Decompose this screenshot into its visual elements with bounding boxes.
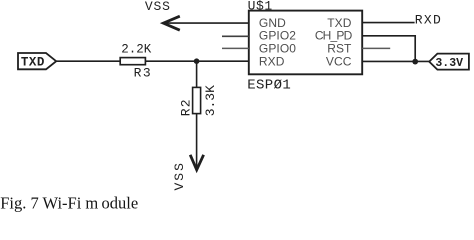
svg-text:3.3V: 3.3V bbox=[435, 57, 463, 70]
svg-text:2.2K: 2.2K bbox=[121, 43, 152, 57]
flag TXD (input port) bbox=[18, 53, 56, 69]
flag 3.3V (supply) bbox=[429, 54, 469, 70]
svg-text:VCC: VCC bbox=[326, 55, 352, 69]
pin stub GPIO2 bbox=[222, 35, 249, 37]
resistor R3 bbox=[120, 58, 145, 65]
svg-text:GPIO2: GPIO2 bbox=[259, 29, 296, 43]
wire GND pin to VSS arrow bbox=[166, 22, 249, 24]
ground VSS arrow (down) bbox=[190, 155, 203, 170]
node A junction dot bbox=[194, 58, 200, 64]
svg-text:CH_PD: CH_PD bbox=[315, 29, 353, 43]
pin stub GPIO0 bbox=[222, 47, 249, 49]
svg-text:U$1: U$1 bbox=[248, 0, 273, 14]
svg-text:VSS: VSS bbox=[145, 0, 171, 14]
resistor R2 bbox=[193, 87, 201, 113]
node B junction dot bbox=[412, 59, 418, 65]
wire R3 to node A and IC RXD pin bbox=[146, 60, 249, 62]
svg-text:RXD: RXD bbox=[415, 12, 442, 27]
svg-text:Fig. 7 Wi-Fi m odule: Fig. 7 Wi-Fi m odule bbox=[0, 193, 138, 212]
wire node A down to R2 bbox=[196, 61, 198, 87]
svg-text:TXD: TXD bbox=[21, 55, 45, 69]
wire R2 to VSS arrow bbox=[196, 114, 198, 168]
svg-text:ESPØ1: ESPØ1 bbox=[247, 77, 291, 93]
wire VCC pin to 3.3V flag bbox=[362, 60, 429, 62]
svg-text:VSS: VSS bbox=[172, 161, 187, 190]
svg-text:3.3K: 3.3K bbox=[203, 85, 218, 116]
wire CH_PD pin to node B bbox=[362, 36, 415, 62]
op IC U$1 box bbox=[249, 11, 362, 75]
svg-text:R2: R2 bbox=[178, 98, 193, 116]
svg-text:RXD: RXD bbox=[259, 55, 285, 69]
wire TXD flag to R3 bbox=[56, 60, 119, 62]
svg-text:R3: R3 bbox=[134, 66, 153, 81]
supply VSS arrow (left) bbox=[163, 16, 179, 30]
wire IC TXD pin to RXD net bbox=[362, 22, 414, 24]
pin stub RST bbox=[362, 47, 390, 49]
